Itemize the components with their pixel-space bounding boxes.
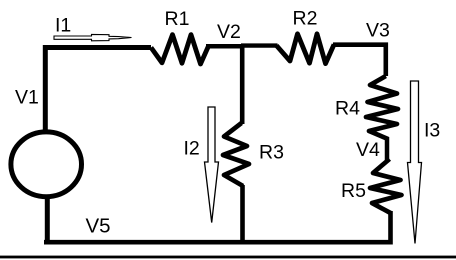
svg-text:R5: R5 bbox=[341, 180, 366, 202]
wire: middle vertical from node V2 down to R3 bbox=[240, 44, 245, 124]
wire: source bottom stub to bottom wire bbox=[45, 196, 50, 244]
svg-text:V2: V2 bbox=[217, 21, 241, 43]
svg-text:R3: R3 bbox=[259, 142, 284, 164]
svg-text:R1: R1 bbox=[165, 8, 190, 30]
current arrow I1 bbox=[54, 34, 132, 40]
wire: R5 down to bottom-right corner bbox=[44, 211, 391, 242]
resistor R4 bbox=[366, 76, 398, 139]
wire: left vertical + top-left horizontal segment bbox=[45, 48, 151, 132]
resistor R1 bbox=[151, 35, 209, 64]
svg-text:V4: V4 bbox=[356, 139, 380, 161]
wire: R1 to node V2 bbox=[206, 44, 243, 49]
svg-text:V3: V3 bbox=[366, 20, 390, 42]
bottom separator line bbox=[0, 256, 456, 259]
svg-text:I3: I3 bbox=[424, 120, 440, 142]
resistor R5 bbox=[370, 159, 402, 213]
resistor R2 bbox=[277, 34, 335, 64]
svg-text:I1: I1 bbox=[55, 15, 71, 37]
svg-text:I2: I2 bbox=[184, 138, 200, 160]
wire: R4 to R5 (node V4) bbox=[385, 137, 390, 160]
svg-text:R2: R2 bbox=[293, 8, 318, 30]
resistor R3 bbox=[223, 123, 249, 186]
svg-text:V5: V5 bbox=[86, 215, 111, 238]
wire: node V2 to R2 bbox=[241, 43, 278, 47]
current arrow I3 bbox=[408, 81, 422, 244]
svg-text:R4: R4 bbox=[335, 98, 360, 120]
current arrow I2 bbox=[205, 107, 219, 223]
svg-text:V1: V1 bbox=[15, 87, 39, 109]
wire: R3 down to bottom wire junction bbox=[240, 185, 245, 244]
wire: R2 to node V3 corner, then down to R4 bbox=[333, 45, 386, 76]
voltage source V1 (circle) bbox=[11, 132, 82, 197]
